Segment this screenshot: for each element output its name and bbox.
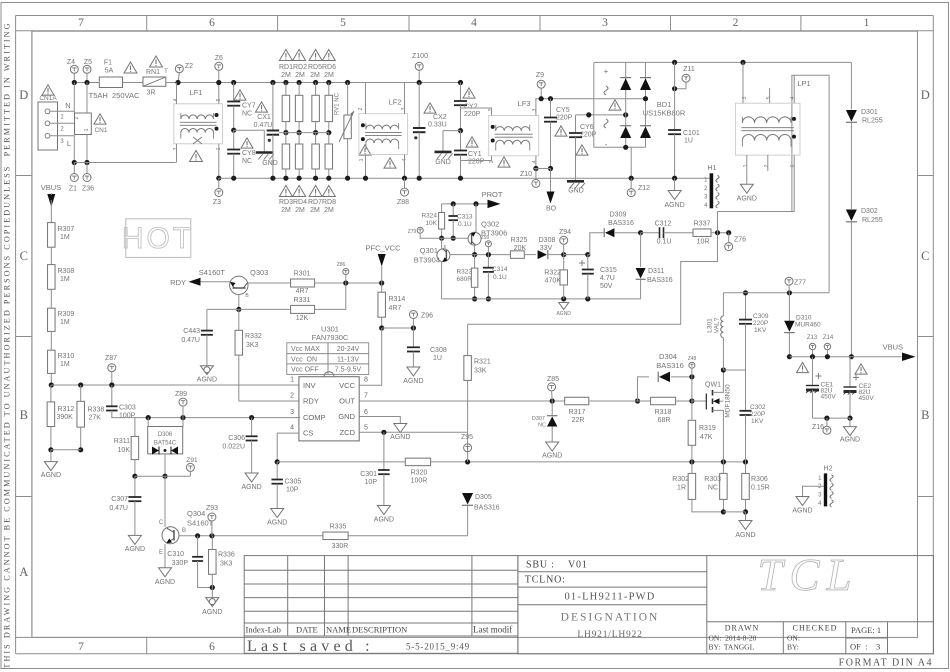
svg-text:Z3: Z3 <box>213 199 221 206</box>
warning triangle CY5 <box>555 126 567 136</box>
svg-text:R308: R308 <box>58 268 75 275</box>
svg-text:1: 1 <box>864 17 870 29</box>
bridge diode leg B <box>645 62 647 147</box>
svg-text:R307: R307 <box>58 226 75 233</box>
svg-text:5: 5 <box>364 425 368 432</box>
svg-text:4.7U: 4.7U <box>600 275 615 282</box>
svg-text:1M: 1M <box>60 276 70 283</box>
svg-text:AGND: AGND <box>737 196 757 203</box>
svg-text:CY2: CY2 <box>464 104 478 111</box>
transistor Q304 S4160T <box>164 476 166 527</box>
capacitor CX1 0.47U <box>270 80 275 85</box>
warning triangle RD6 <box>322 49 335 60</box>
svg-text:330R: 330R <box>332 543 349 550</box>
warning triangle CX1 <box>256 102 268 112</box>
svg-text:CY7: CY7 <box>242 103 256 110</box>
ground AGND under C101 <box>674 178 676 190</box>
svg-text:Last saved :: Last saved : <box>247 638 374 655</box>
resistor R319 47K <box>691 401 693 420</box>
resistor RN1 3R <box>143 77 166 86</box>
svg-text:AGND: AGND <box>403 378 423 385</box>
wire CE bottom row <box>813 417 851 419</box>
svg-text:7: 7 <box>78 641 84 653</box>
svg-text:5-5-2015_9:49: 5-5-2015_9:49 <box>406 642 470 652</box>
svg-text:2: 2 <box>290 393 294 400</box>
resistor R321 33K <box>467 324 469 355</box>
svg-text:AGND: AGND <box>664 202 684 209</box>
svg-text:2M: 2M <box>324 72 334 79</box>
test point Z10 <box>535 169 537 180</box>
capacitor C306 0.022U <box>249 415 254 420</box>
svg-text:AGND: AGND <box>840 437 860 444</box>
svg-text:R321: R321 <box>474 359 491 366</box>
svg-text:10R: 10R <box>697 239 710 246</box>
wire OUT row <box>359 400 565 402</box>
svg-text:C312: C312 <box>655 221 672 228</box>
warning triangle LF3 <box>498 157 510 167</box>
svg-text:DESCRIPTION: DESCRIPTION <box>352 625 407 635</box>
svg-text:11-13V: 11-13V <box>337 356 359 363</box>
svg-text:R303: R303 <box>704 476 721 483</box>
svg-text:4R7: 4R7 <box>296 288 309 295</box>
ground AGND under R306 <box>745 512 747 521</box>
svg-text:Vcc ON: Vcc ON <box>291 356 317 363</box>
svg-text:6: 6 <box>209 17 215 29</box>
test point Z85 <box>548 383 556 391</box>
svg-text:ZCD: ZCD <box>340 428 356 437</box>
resistor R307 1M <box>50 200 52 223</box>
svg-text:220P: 220P <box>468 159 485 166</box>
svg-text:Z79: Z79 <box>408 229 417 235</box>
inductor L301 VAL2 <box>722 293 724 316</box>
svg-text:R314: R314 <box>389 296 406 303</box>
capacitor C313 0.1U <box>452 204 454 216</box>
svg-text:R317: R317 <box>569 409 586 416</box>
svg-text:3: 3 <box>602 17 608 29</box>
svg-text:Z99: Z99 <box>481 235 490 241</box>
capacitor C101 1U <box>674 62 676 130</box>
resistor RD8 2M <box>328 133 330 144</box>
warning triangle RD1 <box>279 49 292 60</box>
wire Q303 base <box>238 295 240 310</box>
svg-text:4R7: 4R7 <box>389 305 402 312</box>
test point Z87 <box>108 364 116 372</box>
svg-text:L301: L301 <box>707 318 714 333</box>
svg-text:2M: 2M <box>310 72 320 79</box>
diode D302 RL255 <box>846 209 857 221</box>
svg-text:R338: R338 <box>88 407 105 414</box>
svg-text:450V: 450V <box>859 395 875 402</box>
svg-text:Z85: Z85 <box>547 376 559 383</box>
svg-text:QW1: QW1 <box>705 382 721 389</box>
resistor RD3 2M <box>285 133 287 144</box>
resistor R309 1M <box>50 289 52 308</box>
svg-text:Z1: Z1 <box>69 186 77 193</box>
wire protection gnd rail <box>442 298 641 300</box>
svg-text:AGND: AGND <box>125 546 145 553</box>
warning triangle CX2 <box>424 103 436 113</box>
svg-text:E: E <box>443 244 446 249</box>
svg-text:Z5: Z5 <box>84 59 92 66</box>
svg-text:R322: R322 <box>544 270 561 277</box>
svg-text:DESIGNATION: DESIGNATION <box>561 612 660 624</box>
svg-text:0.1U: 0.1U <box>458 221 472 228</box>
svg-text:BY: TANGGL: BY: TANGGL <box>709 643 755 652</box>
warning triangle RV1 <box>359 145 371 155</box>
wire R312-R338 bottom <box>51 449 81 451</box>
svg-text:RD7: RD7 <box>308 199 322 206</box>
svg-text:Z16: Z16 <box>812 424 824 431</box>
transistor Q301 BT3904 <box>437 249 450 262</box>
svg-text:VBUS: VBUS <box>41 183 61 192</box>
svg-text:B: B <box>182 528 186 534</box>
svg-text:RD8: RD8 <box>322 199 336 206</box>
svg-text:BO: BO <box>546 206 557 213</box>
svg-text:Z88: Z88 <box>397 199 409 206</box>
svg-text:0.47U: 0.47U <box>254 122 273 129</box>
capacitor CY6 220P <box>575 115 577 133</box>
svg-text:0.1U: 0.1U <box>657 239 672 246</box>
svg-text:5: 5 <box>766 96 772 99</box>
svg-text:R337: R337 <box>694 221 711 228</box>
wire source sense row <box>723 511 745 513</box>
svg-text:BAS316: BAS316 <box>608 220 634 227</box>
svg-text:C315: C315 <box>600 267 617 274</box>
ground AGND under C306 <box>245 473 258 482</box>
wire line live column <box>73 83 75 114</box>
capacitor C305 10P <box>276 462 278 480</box>
svg-text:1KV: 1KV <box>754 327 767 334</box>
svg-text:0.47U: 0.47U <box>181 337 200 344</box>
fuse F1 5A <box>99 77 122 88</box>
capacitor C308 1U <box>412 328 414 347</box>
svg-text:SBU :: SBU : <box>526 560 555 571</box>
svg-text:BAS316: BAS316 <box>474 505 500 512</box>
test point Z2 <box>175 65 183 73</box>
svg-text:BY:: BY: <box>787 643 799 652</box>
svg-text:4: 4 <box>532 160 538 163</box>
resistor R312 390K <box>50 385 52 402</box>
svg-text:LH921/LH922: LH921/LH922 <box>577 630 642 640</box>
svg-text:D305: D305 <box>475 494 492 501</box>
svg-text:CY8: CY8 <box>242 150 256 157</box>
ground AGND under C443 <box>200 366 213 375</box>
wire Q302 collector down <box>474 245 476 254</box>
svg-text:Z13: Z13 <box>807 335 818 341</box>
wire Q303 collector to R301 <box>248 282 291 284</box>
svg-text:2M: 2M <box>281 207 291 214</box>
svg-text:HOT: HOT <box>122 222 194 255</box>
svg-text:Q304: Q304 <box>187 509 205 518</box>
svg-text:D306: D306 <box>158 432 173 438</box>
svg-text:Z2: Z2 <box>185 63 193 70</box>
warning triangle CY1 <box>466 137 478 147</box>
resistor R314 4R7 <box>381 283 383 292</box>
warning triangle near RN1 <box>150 56 163 67</box>
svg-text:R331: R331 <box>294 297 311 304</box>
svg-text:BT3904: BT3904 <box>414 256 440 265</box>
svg-text:BAS316: BAS316 <box>647 277 673 284</box>
resistor RD7 2M <box>315 133 317 144</box>
svg-text:100P: 100P <box>119 413 136 420</box>
wire Q302 emitter up <box>475 204 477 233</box>
svg-text:VBUS: VBUS <box>883 343 903 352</box>
svg-text:6: 6 <box>790 164 796 167</box>
svg-text:Z11: Z11 <box>683 66 695 73</box>
resistor R331 12K <box>291 305 315 313</box>
svg-text:C310: C310 <box>167 551 184 558</box>
svg-text:Z86: Z86 <box>337 262 346 268</box>
svg-text:D: D <box>19 88 28 102</box>
resistor R320 100R <box>405 458 430 466</box>
warning triangle BD1 <box>609 100 621 110</box>
ground AGND under R336 <box>211 588 213 598</box>
svg-text:7: 7 <box>78 17 84 29</box>
test point Z96 <box>409 311 417 319</box>
resistor R310 1M <box>50 331 52 350</box>
ground GND for CY7-CY8 <box>234 129 265 131</box>
wire R331 to node <box>315 283 346 309</box>
warning triangle RD4 <box>293 185 306 196</box>
resistor R337 10R <box>693 229 711 237</box>
test point Z5 <box>83 65 91 73</box>
svg-text:0.33U: 0.33U <box>428 122 447 129</box>
svg-text:5: 5 <box>340 17 346 29</box>
resistor RD6 2M <box>326 80 331 85</box>
wire Q301 collector <box>441 238 443 249</box>
capacitor CY8 NC <box>233 130 235 149</box>
svg-text:R325: R325 <box>511 237 528 244</box>
svg-text:D309: D309 <box>610 212 627 219</box>
wire VCC pin riser <box>359 328 382 385</box>
wire R337 to LP1 shield <box>717 212 719 233</box>
capacitor CE1 82U 450V <box>812 357 814 386</box>
svg-text:4: 4 <box>790 96 796 99</box>
resistor R338 27K <box>78 382 83 387</box>
warning triangle CY8 <box>241 138 253 148</box>
svg-text:6: 6 <box>364 409 368 416</box>
svg-text:Z95: Z95 <box>461 434 473 441</box>
svg-text:Index-Lab: Index-Lab <box>246 625 281 635</box>
capacitor C443 0.47U <box>206 309 208 330</box>
test point Z12 <box>630 178 632 188</box>
svg-text:H1: H1 <box>708 165 717 172</box>
test point Z4 <box>70 65 78 73</box>
svg-text:LF1: LF1 <box>190 88 203 97</box>
svg-text:C314: C314 <box>492 266 508 273</box>
svg-text:RL255: RL255 <box>862 217 883 224</box>
svg-text:470K: 470K <box>545 278 562 285</box>
resistor RD5 2M <box>313 80 318 85</box>
diode D304 BAS316 <box>638 377 650 401</box>
inductor LF1 <box>174 104 223 144</box>
warning triangle CE2 <box>855 364 867 374</box>
resistor R303 NC <box>722 462 724 474</box>
svg-text:R319: R319 <box>699 425 716 432</box>
transistor Q303 S4160T <box>230 276 248 294</box>
resistor R335 330R <box>323 532 348 540</box>
svg-text:2: 2 <box>733 17 739 29</box>
diode D311 BAS316 <box>640 233 642 267</box>
wire R311-D306 row <box>135 475 191 477</box>
svg-text:450V: 450V <box>821 394 837 401</box>
svg-text:CN1: CN1 <box>94 127 107 134</box>
svg-text:0.15R: 0.15R <box>751 485 770 492</box>
svg-text:BAS316: BAS316 <box>656 361 684 370</box>
wire LF3 pin2 to CY column <box>461 108 492 116</box>
ground AGND under C308 <box>407 367 420 376</box>
svg-text:C308: C308 <box>430 347 447 354</box>
wire R301 to PFC node <box>315 282 382 284</box>
svg-text:OUT: OUT <box>339 397 355 406</box>
svg-text:Vcc OFF: Vcc OFF <box>291 367 319 374</box>
svg-text:Q302: Q302 <box>481 220 499 229</box>
svg-text:D301: D301 <box>861 109 878 116</box>
transistor Q302 BT3906 <box>468 232 481 245</box>
svg-text:Z100: Z100 <box>412 53 428 60</box>
svg-text:Z36: Z36 <box>82 186 94 193</box>
diode D309 BAS316 <box>588 233 604 255</box>
test point Z6 <box>215 62 223 70</box>
svg-text:Z4: Z4 <box>67 59 75 66</box>
test point Z100 <box>415 62 423 70</box>
svg-text:B: B <box>921 408 929 422</box>
test point Z3 <box>216 176 221 181</box>
svg-text:NAME: NAME <box>326 625 351 635</box>
svg-text:D308: D308 <box>539 237 556 244</box>
svg-text:R335: R335 <box>330 524 347 531</box>
test point Z1 <box>73 163 75 174</box>
svg-text:27K: 27K <box>89 415 102 422</box>
svg-text:PAGE: 1: PAGE: 1 <box>851 625 881 635</box>
warning triangle RD3 <box>279 185 292 196</box>
table Vcc thresholds <box>287 343 369 375</box>
wire AC top rail <box>74 82 99 84</box>
svg-text:50V: 50V <box>600 283 613 290</box>
warning triangle under LF1 <box>190 150 203 161</box>
svg-text:C101: C101 <box>683 130 700 137</box>
svg-text:R310: R310 <box>58 353 75 360</box>
bridge diode leg A <box>625 62 627 147</box>
svg-text:Z94: Z94 <box>559 229 571 236</box>
svg-text:D302: D302 <box>861 208 878 215</box>
svg-text:AGND: AGND <box>241 484 261 491</box>
wire H2 pin2 to AGND <box>803 486 824 496</box>
node HOT marker <box>126 219 191 258</box>
svg-text:AGND: AGND <box>556 311 571 317</box>
capacitor CX2 0.33U <box>418 70 420 82</box>
title block right section <box>518 556 934 654</box>
svg-text:FORMAT DIN A4: FORMAT DIN A4 <box>839 658 933 669</box>
svg-text:R309: R309 <box>58 311 75 318</box>
capacitor C312 0.1U <box>641 232 660 234</box>
svg-text:C309: C309 <box>753 313 769 320</box>
ground AGND under C307 <box>128 535 141 544</box>
wire R314 to Z96 <box>382 327 414 329</box>
svg-text:D304: D304 <box>659 352 677 361</box>
wire bridge plus rail <box>594 61 852 63</box>
wire VBUS rail <box>789 356 901 358</box>
wire bridge minus lead <box>630 147 632 178</box>
svg-text:7: 7 <box>364 393 368 400</box>
svg-text:RD6: RD6 <box>322 64 336 71</box>
wire Q302 base row <box>420 233 468 238</box>
svg-text:A: A <box>19 565 28 579</box>
svg-text:330P: 330P <box>172 560 189 567</box>
svg-text:1: 1 <box>743 164 749 167</box>
svg-text:01-LH9211-PWD: 01-LH9211-PWD <box>564 592 655 603</box>
resistor RD1 2M <box>283 80 288 85</box>
svg-text:CY6: CY6 <box>580 124 594 131</box>
capacitor CY1 220P <box>460 131 462 151</box>
warning triangle RD5 <box>309 49 322 60</box>
svg-text:AGND: AGND <box>41 472 61 479</box>
diode D310 MUR460 <box>788 293 790 322</box>
svg-text:BAT54C: BAT54C <box>154 441 177 447</box>
svg-text:AGND: AGND <box>267 520 287 527</box>
test point Z16 <box>826 418 828 426</box>
svg-text:R318: R318 <box>655 409 672 416</box>
svg-text:C307: C307 <box>111 496 128 503</box>
inductor LF3 <box>489 116 539 156</box>
wire Q301 emitter to gnd rail <box>441 261 443 299</box>
svg-text:NC: NC <box>708 485 718 492</box>
wire LF3 pin3 to bridge AC <box>536 99 646 116</box>
svg-text:R312: R312 <box>58 406 75 413</box>
capacitor C309 220P 1KV <box>745 293 747 320</box>
svg-text:0.1U: 0.1U <box>493 274 507 281</box>
wire CS pin to rail <box>277 433 299 462</box>
svg-text:NC: NC <box>538 423 546 429</box>
svg-text:7.5-9.5V: 7.5-9.5V <box>335 367 362 374</box>
svg-text:4: 4 <box>471 17 477 29</box>
wire LF3 pin1 to CY column <box>461 156 492 161</box>
svg-text:R332: R332 <box>245 333 262 340</box>
svg-text:RD4: RD4 <box>293 199 307 206</box>
capacitor CE2 82U 450V <box>849 357 851 387</box>
svg-text:0.47U: 0.47U <box>109 505 128 512</box>
svg-text:E: E <box>159 550 163 556</box>
svg-text:COMP: COMP <box>303 413 326 422</box>
svg-text:2M: 2M <box>281 72 291 79</box>
svg-text:10K: 10K <box>425 220 437 227</box>
svg-text:Last modif: Last modif <box>473 625 512 635</box>
border column band top <box>16 15 934 17</box>
svg-text:AGND: AGND <box>792 508 812 515</box>
svg-text:D310: D310 <box>796 315 812 322</box>
svg-text:C303: C303 <box>119 405 136 412</box>
svg-text:-: - <box>605 140 608 149</box>
svg-text:THIS DRAWING CANNOT BE COMMUNI: THIS DRAWING CANNOT BE COMMUNICATED TO U… <box>3 21 12 668</box>
capacitor CY7 NC <box>231 80 236 85</box>
warning triangle CY7 <box>234 90 246 100</box>
svg-text:T: T <box>164 69 168 75</box>
wire LP1 pin5 stub <box>769 88 771 103</box>
capacitor C314 0.1U <box>487 255 489 268</box>
svg-text:PFC_VCC: PFC_VCC <box>365 244 401 253</box>
bridge BD1 US15KB80R outline <box>593 62 595 147</box>
svg-text:220P: 220P <box>464 111 481 118</box>
svg-text:CX1: CX1 <box>257 114 271 121</box>
svg-text:LF3: LF3 <box>518 99 531 108</box>
wire LP1 pin4 to box <box>793 75 795 103</box>
svg-text:C: C <box>921 249 929 263</box>
svg-text:RD1: RD1 <box>279 64 293 71</box>
svg-text:C: C <box>20 249 28 263</box>
wire D304 junction riser <box>691 377 693 401</box>
resistor R323 680R <box>474 255 476 269</box>
svg-text:CHECKED: CHECKED <box>793 624 838 633</box>
